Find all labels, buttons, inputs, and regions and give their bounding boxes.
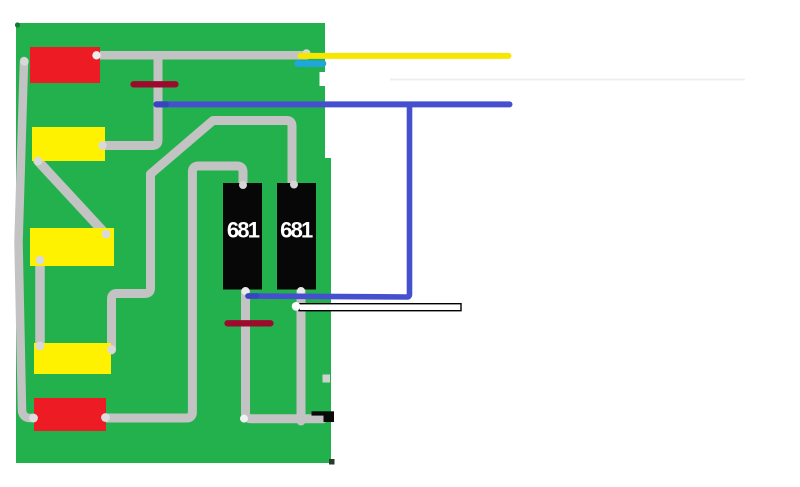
solder pad R4 top pin [290,181,298,189]
jumper wire dark red (top) [134,81,176,87]
wire trace: diagonal Y1 to Y2 [38,161,106,235]
pad on right edge [323,375,331,383]
wire trace: long path Y3 to resistor R4 (681) top [112,121,293,351]
wire blue branch down-left [248,104,410,297]
wire trace: vertical Y2 to Y3 [35,258,45,350]
notch on right edge [320,72,327,86]
solder pad R1 left [20,57,28,65]
solder pad Y1 right [98,141,106,149]
solder pad Y3 top-right [107,345,116,354]
solder pad at top bus right end [303,49,311,57]
solder pad Y3 top-left [36,342,45,351]
wire cyan stub [298,60,324,67]
wire trace: branch down from top bus to yellow component Y1 [103,56,158,146]
component Y3 (yellow) [34,343,111,374]
jumper wire dark red (bottom) [228,320,271,326]
wire trace: n-shaped path R2 to resistor R3 (681) top [100,166,243,418]
wire trace: left edge vertical from R1 to R2 [19,61,38,418]
solder pad at bottom trace corner [240,415,248,423]
wire trace: R3 bottom stub down and right [246,284,324,419]
solder pad Y1 bottom-left [34,157,43,166]
faint erased wire line [390,79,745,81]
resistor R4 (black body) [277,183,316,290]
PCB board (green) [16,23,331,463]
wire blue horizontal [157,101,510,107]
white wire with black outline [299,304,461,311]
white wire left cap [292,302,301,311]
solder pad Y2 top-right [102,230,111,239]
svg-text:681: 681 [280,218,313,243]
solder pad R1 top-right [92,51,100,59]
component Y1 (yellow) [32,127,105,161]
solder pad R3 bottom pin [242,287,250,295]
solder pad R4 bottom pin [297,287,305,295]
wire yellow (to right) [301,53,509,59]
solder pad Y2 bottom-left [36,256,45,265]
wire trace: R4 bottom stub vertical [297,284,306,421]
wire blue cap left [157,101,167,107]
component Y2 (yellow) [30,228,114,266]
component R1 (red, top left) [30,47,100,83]
solder pad R2 right [101,413,110,422]
wire trace: top horizontal bus [97,51,307,60]
wire blue branch cap left [248,293,257,298]
board corner dot [15,22,20,27]
svg-text:681: 681 [227,218,260,243]
resistor R3 (black body) [223,183,262,290]
solder pad R2 left [29,414,38,423]
dark mark at board bottom-right corner [329,459,335,465]
black solder blob bottom right [324,411,335,422]
solder pad R3 top pin [239,181,247,189]
component R2 (red, bottom left) [34,398,106,431]
